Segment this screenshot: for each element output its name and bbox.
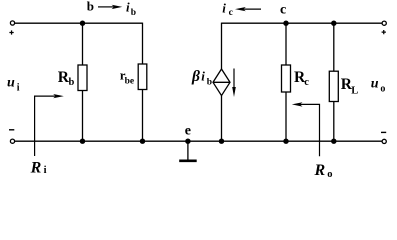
- svg-text:c: c: [229, 8, 233, 18]
- svg-text:be: be: [125, 76, 135, 86]
- wire top-right rail c-node: [222, 22, 382, 24]
- wire r_be branch upper: [142, 23, 144, 64]
- resistor R_c: [282, 65, 291, 92]
- svg-text:c: c: [304, 77, 309, 88]
- junction top of R_L: [331, 21, 336, 26]
- wire R_b branch lower: [82, 91, 84, 142]
- arrow R_i (bent, input resistance): [35, 94, 64, 156]
- wire current-source branch upper: [221, 23, 223, 69]
- terminal input top: [10, 21, 14, 25]
- node b junction: [80, 21, 85, 26]
- ground bar: [179, 160, 197, 163]
- svg-text:b: b: [87, 0, 94, 14]
- svg-text:e: e: [185, 124, 191, 139]
- wire R_b branch upper: [82, 23, 84, 65]
- resistor R_b: [78, 65, 87, 91]
- svg-text:i: i: [17, 83, 20, 94]
- polarity - at output bottom: [381, 131, 386, 133]
- polarity + at input top: [9, 30, 13, 34]
- junction bottom of R_c: [283, 139, 288, 144]
- arrow i_b (rightward): [98, 5, 122, 9]
- svg-text:o: o: [380, 83, 385, 94]
- terminal input bottom: [10, 139, 14, 143]
- svg-text:i: i: [126, 0, 130, 15]
- wire R_c branch lower: [285, 92, 287, 141]
- dependent current source beta*i_b diamond: [213, 69, 230, 96]
- polarity + at output top: [382, 30, 386, 34]
- wire r_be branch lower: [142, 90, 144, 142]
- svg-text:b: b: [69, 77, 75, 88]
- junction bottom of R_L: [331, 139, 336, 144]
- junction bottom of current source: [219, 139, 224, 144]
- svg-text:b: b: [207, 77, 212, 87]
- terminal output top: [382, 21, 386, 25]
- ground stem: [187, 141, 189, 159]
- svg-text:R: R: [314, 162, 326, 179]
- svg-text:i: i: [222, 1, 226, 16]
- svg-text:i: i: [44, 165, 47, 176]
- junction bottom of R_b: [80, 139, 85, 144]
- junction bottom of r_be: [140, 139, 145, 144]
- arrow i_c (leftward): [235, 7, 261, 11]
- wire bottom rail e-node: [15, 140, 382, 142]
- node c junction at R_c: [283, 21, 288, 26]
- svg-text:i: i: [201, 69, 205, 84]
- wire R_L branch lower: [333, 102, 335, 142]
- resistor r_be: [138, 64, 147, 90]
- arrow R_o (bent, output resistance): [292, 102, 320, 156]
- wire top-left rail b-node: [15, 22, 143, 24]
- svg-text:o: o: [327, 169, 332, 180]
- polarity - at input bottom: [9, 129, 14, 131]
- svg-text:c: c: [280, 3, 286, 18]
- svg-text:u: u: [371, 76, 379, 91]
- wire R_c branch upper: [285, 23, 287, 65]
- svg-text:L: L: [351, 85, 358, 96]
- svg-text:b: b: [131, 8, 136, 18]
- svg-text:R: R: [30, 159, 42, 176]
- terminal output bottom: [382, 139, 386, 143]
- current source arrow (downward): [232, 69, 236, 98]
- wire current-source branch lower: [221, 96, 223, 142]
- svg-text:u: u: [7, 75, 15, 90]
- node e junction at ground: [185, 139, 190, 144]
- svg-text:β: β: [191, 68, 200, 85]
- wire R_L branch upper: [333, 23, 335, 71]
- resistor R_L: [329, 71, 338, 101]
